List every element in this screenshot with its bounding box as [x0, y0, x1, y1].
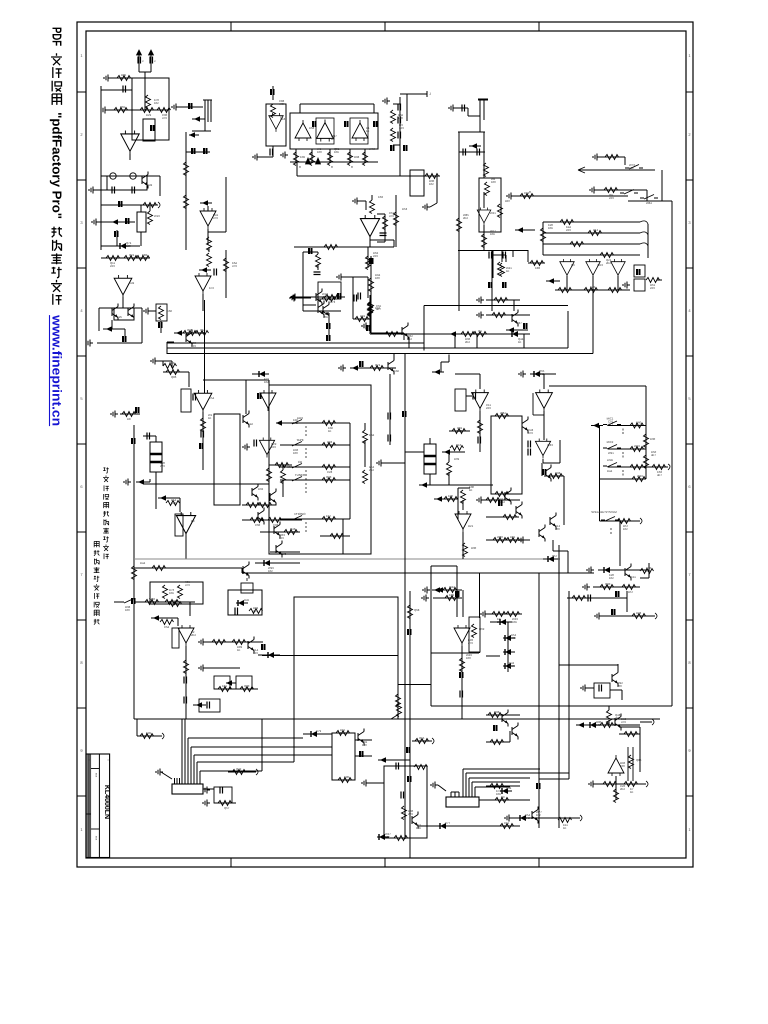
svg-text:223: 223	[126, 244, 131, 248]
svg-text:W19: W19	[634, 444, 640, 448]
svg-text:1: 1	[80, 53, 83, 58]
svg-text:K25: K25	[117, 315, 122, 319]
svg-text:W37: W37	[516, 321, 522, 325]
svg-text:102: 102	[142, 256, 147, 260]
svg-text:1K: 1K	[630, 790, 634, 794]
svg-text:6: 6	[688, 484, 691, 489]
svg-text:223: 223	[399, 126, 404, 130]
svg-text:1K: 1K	[208, 416, 212, 420]
svg-text:223: 223	[279, 536, 284, 540]
svg-text:1K: 1K	[563, 826, 567, 830]
svg-text:223: 223	[609, 196, 614, 200]
svg-text:473: 473	[593, 231, 598, 235]
svg-text:W84: W84	[500, 411, 506, 415]
svg-text:10K: 10K	[323, 315, 328, 319]
svg-text:D8: D8	[127, 417, 131, 421]
svg-text:2: 2	[80, 132, 83, 137]
svg-text:102: 102	[524, 194, 529, 198]
svg-text:R87: R87	[505, 199, 511, 203]
svg-text:C64: C64	[164, 625, 170, 629]
svg-text:Q30: Q30	[244, 684, 250, 688]
svg-text:1K: 1K	[326, 478, 330, 482]
svg-text:W84: W84	[646, 201, 652, 205]
svg-text:R73: R73	[330, 300, 336, 304]
svg-text:1K: 1K	[237, 648, 241, 652]
svg-text:C77: C77	[445, 821, 451, 825]
svg-text:W78: W78	[369, 147, 375, 151]
svg-text:100: 100	[491, 180, 496, 184]
svg-text:100: 100	[290, 530, 295, 534]
svg-text:2K2: 2K2	[326, 517, 331, 521]
svg-text:W53: W53	[597, 263, 603, 267]
svg-text:223: 223	[373, 254, 378, 258]
svg-text:10K: 10K	[512, 620, 517, 624]
svg-text:D39: D39	[454, 457, 460, 461]
svg-text:10K: 10K	[416, 826, 421, 830]
svg-text:R: R	[529, 190, 532, 194]
svg-text:D79: D79	[316, 729, 322, 733]
svg-text:9: 9	[80, 748, 83, 753]
svg-text:100: 100	[293, 451, 298, 455]
svg-text:5: 5	[688, 396, 691, 401]
svg-text:4K7: 4K7	[509, 664, 514, 668]
svg-text:9: 9	[688, 748, 691, 753]
svg-text:223: 223	[253, 651, 258, 655]
svg-text:R98: R98	[354, 155, 360, 159]
svg-text:K42: K42	[248, 422, 253, 426]
svg-text:MIC2: MIC2	[607, 440, 614, 444]
svg-text:1: 1	[688, 53, 691, 58]
svg-text:2K2: 2K2	[478, 332, 483, 336]
svg-text:1K: 1K	[506, 269, 510, 273]
svg-text:2K2: 2K2	[510, 538, 515, 542]
svg-text:2K2: 2K2	[463, 216, 468, 220]
svg-text:100: 100	[317, 150, 322, 154]
svg-text:223: 223	[408, 812, 413, 816]
svg-text:1: 1	[688, 827, 691, 832]
svg-text:102: 102	[536, 813, 541, 817]
svg-text:100: 100	[555, 527, 560, 531]
svg-text:8: 8	[80, 660, 83, 665]
svg-text:W91: W91	[608, 451, 614, 455]
svg-text:R45: R45	[244, 598, 250, 602]
svg-text:473: 473	[621, 720, 626, 724]
svg-text:102: 102	[636, 424, 641, 428]
svg-text:2K2: 2K2	[620, 787, 625, 791]
svg-text:223: 223	[253, 609, 258, 613]
svg-text:Q57: Q57	[224, 806, 230, 810]
svg-text:7: 7	[688, 572, 691, 577]
svg-text:K66: K66	[167, 309, 172, 313]
svg-text:Q57: Q57	[552, 554, 558, 558]
svg-text:102: 102	[429, 182, 434, 186]
svg-text:R98: R98	[494, 710, 500, 714]
svg-text:Q68: Q68	[414, 608, 420, 612]
svg-text:102: 102	[623, 527, 628, 531]
svg-text:K99: K99	[146, 731, 151, 735]
svg-text:102: 102	[264, 380, 269, 384]
svg-text:1K: 1K	[328, 429, 332, 433]
svg-text:1K: 1K	[121, 76, 125, 80]
svg-text:223: 223	[160, 464, 165, 468]
svg-text:8: 8	[688, 660, 691, 665]
svg-text:10K: 10K	[548, 226, 553, 230]
svg-text:100: 100	[466, 656, 471, 660]
svg-text:4K7: 4K7	[501, 798, 506, 802]
svg-text:W49: W49	[637, 474, 643, 478]
svg-text:2K2: 2K2	[525, 816, 530, 820]
svg-text:C16: C16	[456, 443, 462, 447]
svg-text:10K: 10K	[334, 150, 339, 154]
svg-text:6: 6	[80, 484, 83, 489]
svg-text:R49: R49	[147, 183, 153, 187]
svg-text:102: 102	[340, 731, 345, 735]
svg-text:1K: 1K	[448, 497, 452, 501]
svg-text:Q86: Q86	[171, 375, 177, 379]
svg-text:R59: R59	[275, 463, 281, 467]
svg-text:D34: D34	[375, 306, 381, 310]
svg-text:473: 473	[375, 366, 380, 370]
svg-text:2K2: 2K2	[369, 468, 374, 472]
svg-text:3: 3	[80, 220, 83, 225]
svg-text:Q69: Q69	[479, 627, 485, 631]
svg-text:473: 473	[528, 431, 533, 435]
svg-text:TUNER: TUNER	[295, 473, 306, 477]
svg-text:Q30: Q30	[605, 582, 611, 586]
svg-text:D44: D44	[607, 469, 613, 473]
svg-text:Q44: Q44	[506, 786, 512, 790]
svg-text:W21: W21	[490, 211, 496, 215]
svg-text:J: J	[429, 92, 431, 96]
svg-text:W42: W42	[449, 585, 455, 589]
svg-text:D53: D53	[402, 207, 408, 211]
svg-text:PHONO: PHONO	[294, 512, 306, 516]
svg-text:R: R	[299, 165, 302, 169]
svg-text:2K2: 2K2	[407, 337, 412, 341]
svg-text:5: 5	[80, 396, 83, 401]
svg-text:223: 223	[110, 264, 115, 268]
svg-text:100: 100	[375, 276, 380, 280]
svg-text:473: 473	[213, 216, 218, 220]
svg-text:xxx: xxx	[95, 773, 99, 778]
svg-text:2: 2	[688, 132, 691, 137]
svg-text:KL4000LN: KL4000LN	[103, 785, 110, 819]
svg-text:223: 223	[271, 445, 276, 449]
svg-text:Q21: Q21	[129, 253, 135, 257]
svg-text:Q86: Q86	[636, 758, 642, 762]
svg-text:223: 223	[191, 344, 196, 348]
svg-text:D91: D91	[360, 314, 366, 318]
svg-text:K11: K11	[631, 575, 636, 579]
svg-text:473: 473	[232, 264, 237, 268]
svg-text:Q6: Q6	[571, 263, 575, 267]
svg-text:D29: D29	[146, 113, 152, 117]
svg-text:R: R	[351, 165, 354, 169]
svg-text:102: 102	[629, 166, 634, 170]
svg-text:K32: K32	[394, 369, 399, 373]
svg-text:R21: R21	[468, 524, 474, 528]
svg-text:C65: C65	[120, 105, 126, 109]
svg-text:102: 102	[609, 576, 614, 580]
svg-text:223: 223	[486, 406, 491, 410]
svg-text:2K2: 2K2	[465, 340, 470, 344]
svg-text:100: 100	[398, 116, 403, 120]
svg-text:473: 473	[162, 116, 167, 120]
svg-text:2K2: 2K2	[293, 421, 298, 425]
svg-text:1K: 1K	[518, 340, 522, 344]
svg-text:K39: K39	[300, 155, 305, 159]
svg-text:4: 4	[688, 308, 691, 313]
svg-text:www.fineprint.cn: www.fineprint.cn	[50, 314, 65, 426]
svg-text:K83: K83	[535, 266, 540, 270]
svg-text:473: 473	[185, 583, 190, 587]
svg-text:c: c	[142, 59, 144, 63]
svg-text:PDF: PDF	[50, 27, 65, 46]
svg-text:223: 223	[566, 228, 571, 232]
svg-text:1K: 1K	[469, 488, 473, 492]
svg-text:D44: D44	[369, 433, 375, 437]
svg-text:100: 100	[617, 684, 622, 688]
svg-text:CD: CD	[298, 460, 303, 464]
svg-text:c: c	[154, 59, 156, 63]
svg-text:K63: K63	[378, 195, 383, 199]
svg-text:473: 473	[279, 102, 284, 106]
svg-text:102: 102	[154, 101, 159, 105]
svg-text:R30: R30	[471, 546, 477, 550]
svg-text:4K7: 4K7	[615, 716, 620, 720]
svg-text:473: 473	[511, 636, 516, 640]
svg-text:K51: K51	[222, 684, 227, 688]
svg-text:TAPE: TAPE	[296, 438, 304, 442]
svg-text:C54: C54	[209, 396, 215, 400]
svg-text:10K: 10K	[169, 591, 174, 595]
svg-text:SPEAKER SYSTEM: SPEAKER SYSTEM	[591, 510, 617, 514]
svg-text:473: 473	[497, 538, 502, 542]
svg-text:10K: 10K	[490, 232, 495, 236]
svg-text:C28: C28	[327, 470, 333, 474]
svg-text:W33: W33	[547, 443, 553, 447]
svg-text:473: 473	[449, 596, 454, 600]
svg-text:4: 4	[80, 308, 83, 313]
svg-text:102: 102	[385, 835, 390, 839]
svg-text:R: R	[331, 165, 334, 169]
svg-text:W16: W16	[154, 214, 160, 218]
svg-text:4K7: 4K7	[651, 453, 656, 457]
svg-text:10K: 10K	[504, 824, 509, 828]
svg-text:C60: C60	[255, 523, 261, 527]
svg-text:223: 223	[650, 286, 655, 290]
svg-text:LINE: LINE	[607, 458, 613, 462]
svg-text:R93: R93	[327, 440, 333, 444]
svg-text:K90: K90	[344, 775, 349, 779]
svg-text:1: 1	[80, 827, 83, 832]
svg-text:D32: D32	[258, 487, 264, 491]
svg-text:7: 7	[80, 572, 83, 577]
svg-text:2K2: 2K2	[191, 633, 196, 637]
svg-text:K72: K72	[209, 286, 214, 290]
svg-text:D49: D49	[129, 281, 135, 285]
svg-text:Q15: Q15	[419, 736, 425, 740]
svg-text:223: 223	[171, 501, 176, 505]
svg-text:K3: K3	[191, 519, 195, 523]
svg-text:D44: D44	[140, 561, 146, 565]
svg-text:100: 100	[620, 764, 625, 768]
svg-text:4K7: 4K7	[657, 473, 662, 477]
svg-text:102: 102	[268, 569, 273, 573]
svg-text:3: 3	[688, 220, 691, 225]
svg-text:100: 100	[125, 608, 130, 612]
svg-text:473: 473	[389, 214, 394, 218]
svg-text:R98: R98	[555, 471, 561, 475]
svg-text:"pdfFactory Pro": "pdfFactory Pro"	[50, 112, 65, 219]
svg-text:D30: D30	[650, 437, 656, 441]
svg-text:R23: R23	[636, 611, 642, 615]
svg-text:100: 100	[362, 743, 367, 747]
svg-text:R57: R57	[628, 590, 634, 594]
svg-text:xxx: xxx	[95, 836, 99, 841]
